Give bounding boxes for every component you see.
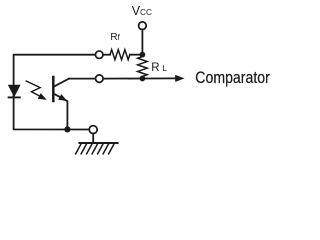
node junction RL/output: [140, 76, 146, 82]
wire left branch: anode top wire, LED vertical, bottom wire: [14, 55, 96, 130]
node junction emitter/bottom wire: [64, 126, 70, 132]
pin terminal (emitter/ground): [89, 126, 97, 134]
wire Vcc to node: [141, 30, 143, 55]
svg-text:R: R: [151, 62, 159, 74]
label Vcc: [132, 4, 152, 18]
node junction Rf/RL: [140, 52, 146, 58]
diode D1 (opto LED): [9, 85, 20, 97]
transistor Q1 base bar: [52, 77, 55, 101]
label Rf: [110, 32, 120, 43]
output arrow to comparator: [142, 75, 183, 81]
wire collector to RL node: [69, 78, 142, 80]
light arrow (opto coupling): [26, 81, 46, 99]
wire Rf to Vcc node: [130, 54, 142, 56]
label RL: [151, 62, 167, 74]
svg-text:Comparator: Comparator: [195, 68, 270, 87]
resistor RL: [138, 55, 148, 79]
wire ground stub: [92, 134, 94, 143]
transistor Q1 collector lead: [54, 79, 69, 87]
svg-text:Rf: Rf: [110, 32, 120, 43]
svg-text:L: L: [162, 63, 167, 73]
pin terminal (anode): [95, 51, 103, 59]
ground symbol: [76, 143, 118, 154]
Vcc terminal circle: [139, 22, 147, 30]
svg-text:VCC: VCC: [132, 4, 152, 18]
label Comparator: [195, 68, 270, 87]
resistor Rf: [110, 50, 130, 60]
transistor Q1 emitter lead with arrow: [54, 94, 68, 130]
pin terminal (collector): [96, 75, 104, 83]
wire anode pin to Rf: [103, 54, 110, 56]
